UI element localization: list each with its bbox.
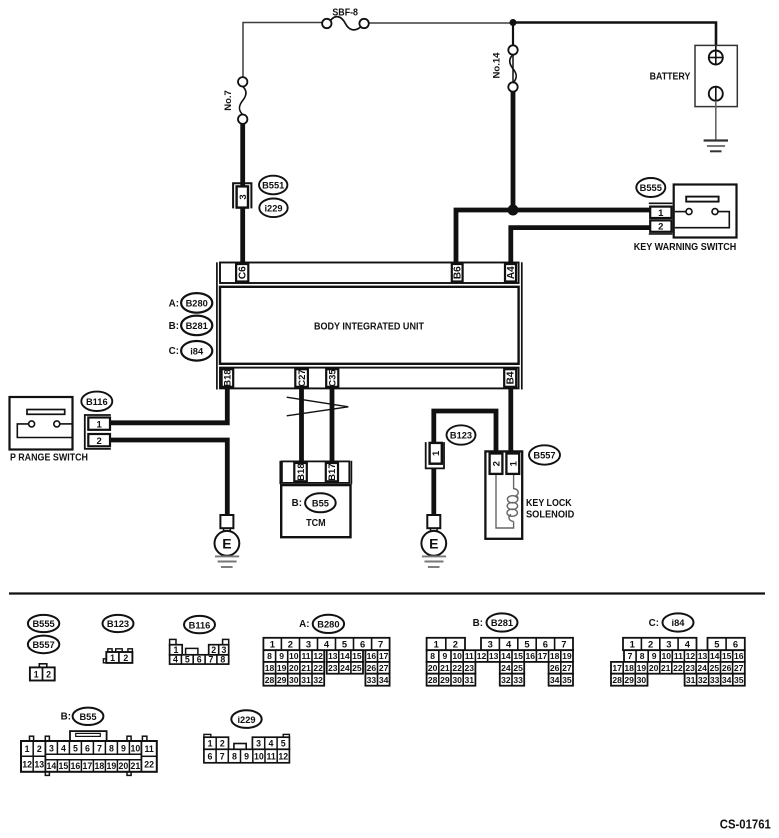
svg-text:26: 26 [550, 663, 560, 673]
TCM connector cell B17 [326, 463, 338, 481]
svg-text:16: 16 [526, 651, 536, 661]
svg-text:SBF-8: SBF-8 [332, 8, 358, 19]
connector label B557 (pin view) [28, 636, 59, 654]
svg-text:A:: A: [299, 619, 309, 630]
svg-text:10: 10 [452, 651, 462, 661]
svg-text:21: 21 [131, 761, 141, 771]
svg-text:8: 8 [232, 751, 237, 761]
key lock solenoid pin 2 [490, 454, 503, 474]
connector B555 pin 2 [650, 220, 671, 232]
TCM left bracket [279, 461, 281, 484]
svg-text:B17: B17 [327, 463, 338, 480]
svg-text:35: 35 [734, 675, 744, 685]
svg-text:8: 8 [109, 744, 114, 754]
svg-text:33: 33 [367, 675, 377, 685]
svg-text:No.7: No.7 [223, 90, 234, 111]
svg-text:20: 20 [119, 761, 129, 771]
svg-text:B280: B280 [186, 299, 208, 309]
wire: C27 to TCM B18 [299, 389, 304, 462]
svg-text:B557: B557 [32, 640, 54, 650]
fuse SBF-8 [322, 8, 369, 30]
svg-text:10: 10 [254, 751, 264, 761]
svg-text:E: E [429, 535, 438, 551]
svg-text:11: 11 [266, 751, 275, 761]
svg-text:17: 17 [538, 651, 548, 661]
svg-text:15: 15 [722, 651, 732, 661]
svg-text:B6: B6 [453, 266, 464, 279]
svg-text:1: 1 [508, 460, 519, 466]
svg-text:B557: B557 [533, 451, 555, 461]
svg-text:8: 8 [267, 651, 272, 661]
svg-text:9: 9 [443, 651, 448, 661]
svg-text:19: 19 [107, 761, 117, 771]
wire: No.14 fuse down to junction [511, 92, 516, 210]
separator line [9, 592, 765, 594]
TCM right bracket [350, 461, 352, 484]
svg-text:KEY WARNING SWITCH: KEY WARNING SWITCH [634, 242, 737, 253]
svg-text:4: 4 [173, 655, 178, 665]
svg-text:34: 34 [550, 675, 560, 685]
svg-text:B55: B55 [79, 712, 96, 722]
svg-text:24: 24 [501, 663, 511, 673]
svg-text:P RANGE SWITCH: P RANGE SWITCH [10, 452, 88, 463]
svg-text:19: 19 [277, 663, 287, 673]
svg-text:25: 25 [513, 663, 523, 673]
svg-text:C35: C35 [328, 369, 339, 387]
connector cell B6 [452, 264, 464, 282]
connector B123 pinout [103, 649, 132, 663]
unit label C: i84 [169, 341, 213, 361]
svg-text:B:: B: [169, 321, 179, 332]
svg-text:6: 6 [360, 638, 365, 649]
svg-text:7: 7 [97, 744, 102, 754]
svg-text:6: 6 [733, 638, 738, 649]
svg-text:18: 18 [550, 651, 560, 661]
svg-text:12: 12 [22, 760, 32, 770]
svg-text:35: 35 [562, 675, 572, 685]
svg-text:6: 6 [197, 655, 202, 665]
svg-text:15: 15 [59, 761, 69, 771]
svg-text:6: 6 [208, 751, 213, 761]
key lock solenoid pin 1 [506, 454, 519, 474]
body integrated unit top connector strip [220, 263, 519, 284]
connector label B116 (P range switch) [81, 392, 112, 411]
svg-text:4: 4 [268, 739, 273, 749]
connector pinout section [9, 594, 765, 776]
svg-text:i229: i229 [237, 715, 255, 725]
svg-text:27: 27 [379, 663, 389, 673]
connector label B551 [259, 176, 287, 195]
svg-text:4: 4 [61, 744, 66, 754]
svg-text:10: 10 [662, 651, 672, 661]
svg-text:3: 3 [256, 739, 261, 749]
svg-text:28: 28 [612, 675, 622, 685]
body integrated unit main box [220, 287, 519, 364]
svg-text:18: 18 [624, 663, 634, 673]
wire: B123 to ground [431, 468, 436, 515]
svg-text:2: 2 [46, 670, 51, 680]
svg-text:17: 17 [83, 761, 93, 771]
unit label B: B281 [169, 316, 213, 336]
svg-text:14: 14 [710, 651, 720, 661]
connector label B123 (inline) [447, 425, 476, 444]
svg-text:9: 9 [244, 751, 249, 761]
connector B116 housing [85, 415, 111, 449]
svg-text:28: 28 [265, 675, 275, 685]
svg-text:30: 30 [452, 675, 462, 685]
key lock solenoid body [485, 451, 522, 538]
connector B55 pinout [21, 731, 157, 775]
svg-text:B116: B116 [86, 397, 108, 407]
svg-text:34: 34 [722, 675, 732, 685]
connector label B116 (pin view) [184, 616, 215, 633]
svg-text:21: 21 [440, 663, 450, 673]
svg-text:16: 16 [367, 651, 377, 661]
svg-text:13: 13 [489, 651, 499, 661]
twisted pair marks [287, 397, 349, 416]
svg-text:19: 19 [562, 651, 572, 661]
svg-text:4: 4 [506, 638, 512, 649]
connector B280 pinout [263, 638, 389, 686]
svg-text:32: 32 [501, 675, 511, 685]
svg-text:33: 33 [513, 675, 523, 685]
svg-text:C:: C: [649, 618, 659, 629]
svg-text:12: 12 [477, 651, 487, 661]
svg-text:E: E [222, 535, 231, 551]
svg-text:1: 1 [208, 739, 213, 749]
connector B116 pin 1 [88, 418, 110, 431]
connector B555/B557 pinout [30, 664, 55, 681]
connector cell C35 [326, 369, 338, 387]
svg-text:3: 3 [49, 744, 54, 754]
svg-text:2: 2 [492, 461, 503, 466]
svg-text:5: 5 [73, 744, 78, 754]
svg-text:30: 30 [637, 675, 647, 685]
svg-text:7: 7 [628, 651, 633, 661]
svg-text:2: 2 [658, 222, 663, 233]
svg-text:1: 1 [270, 638, 275, 649]
svg-text:32: 32 [313, 675, 323, 685]
svg-text:7: 7 [378, 638, 383, 649]
connector i229 pinout [204, 734, 290, 762]
svg-text:B551: B551 [262, 181, 284, 191]
connector label B555 (key warning switch) [636, 178, 665, 197]
svg-text:2: 2 [123, 653, 128, 663]
svg-text:30: 30 [289, 675, 299, 685]
svg-text:29: 29 [440, 675, 450, 685]
svg-text:14: 14 [340, 651, 350, 661]
battery [650, 45, 738, 106]
connector B555 pins housing [649, 203, 673, 234]
ground: battery chassis ground [704, 141, 728, 152]
svg-text:8: 8 [640, 651, 645, 661]
svg-text:31: 31 [465, 675, 475, 685]
TCM box [281, 485, 350, 537]
TCM connector strip [282, 461, 349, 483]
svg-text:26: 26 [722, 663, 732, 673]
svg-text:12: 12 [278, 751, 288, 761]
svg-text:5: 5 [342, 638, 347, 649]
svg-text:1: 1 [173, 645, 178, 655]
svg-text:i229: i229 [264, 204, 282, 214]
svg-text:3: 3 [666, 638, 671, 649]
svg-text:2: 2 [211, 645, 216, 655]
svg-text:7: 7 [209, 655, 214, 665]
connector label A: B280 [299, 615, 344, 633]
svg-text:4: 4 [324, 638, 330, 649]
svg-text:B555: B555 [640, 183, 662, 193]
wire: main feed horizontal left of fuse SBF-8 [243, 23, 322, 78]
svg-text:CS-01761: CS-01761 [720, 817, 771, 831]
connector B281 pinout [427, 638, 573, 686]
svg-text:24: 24 [697, 663, 707, 673]
svg-text:29: 29 [277, 675, 287, 685]
svg-text:23: 23 [685, 663, 695, 673]
svg-text:1: 1 [110, 653, 115, 663]
connector B123 pin 1 [430, 443, 443, 464]
svg-text:B123: B123 [450, 431, 472, 441]
svg-text:17: 17 [379, 651, 389, 661]
svg-text:11: 11 [301, 651, 310, 661]
svg-text:C:: C: [169, 346, 179, 357]
svg-text:22: 22 [313, 663, 323, 673]
svg-text:19: 19 [637, 663, 647, 673]
connector 3 (B551/i229 inline) [233, 183, 251, 208]
node: junction dot key warning feed [508, 205, 519, 216]
connector label i229 [259, 199, 287, 218]
fuse No.7 [223, 77, 248, 124]
svg-text:BODY INTEGRATED UNIT: BODY INTEGRATED UNIT [314, 321, 424, 332]
svg-text:25: 25 [352, 663, 362, 673]
wire: feed between SBF-8 and junction [369, 22, 510, 24]
body integrated unit left bracket [216, 262, 218, 389]
svg-text:20: 20 [649, 663, 659, 673]
connector cell B4 [504, 369, 517, 387]
svg-text:18: 18 [95, 761, 105, 771]
svg-text:27: 27 [734, 663, 744, 673]
svg-text:1: 1 [630, 638, 635, 649]
svg-text:17: 17 [612, 663, 622, 673]
svg-text:23: 23 [465, 663, 475, 673]
svg-text:12: 12 [313, 651, 323, 661]
svg-text:11: 11 [465, 651, 474, 661]
connector cell A4 [505, 264, 517, 282]
svg-text:2: 2 [453, 638, 458, 649]
svg-text:7: 7 [561, 638, 566, 649]
svg-text:KEY LOCK: KEY LOCK [526, 498, 572, 509]
svg-text:13: 13 [328, 651, 338, 661]
svg-text:10: 10 [131, 744, 141, 754]
svg-text:3: 3 [238, 194, 249, 199]
svg-text:18: 18 [265, 663, 275, 673]
svg-text:14: 14 [47, 761, 57, 771]
svg-text:2: 2 [96, 436, 101, 447]
ground E left [215, 515, 240, 567]
svg-text:28: 28 [428, 675, 438, 685]
svg-text:13: 13 [698, 651, 708, 661]
svg-text:1: 1 [96, 419, 102, 430]
wire: C35 to TCM B17 [330, 389, 335, 462]
node: junction dot at feed split [510, 19, 517, 26]
connector B116 pin 2 [88, 434, 110, 447]
svg-text:7: 7 [220, 751, 225, 761]
svg-text:14: 14 [501, 651, 511, 661]
connector B116 pinout [170, 639, 229, 664]
svg-text:5: 5 [524, 638, 529, 649]
schematic section [10, 8, 738, 567]
svg-text:13: 13 [34, 760, 44, 770]
svg-text:C6: C6 [238, 266, 249, 279]
wire: P range switch pin 2 to ground [110, 440, 227, 515]
svg-text:A:: A: [169, 298, 179, 309]
svg-text:27: 27 [562, 663, 572, 673]
svg-text:10: 10 [289, 651, 299, 661]
svg-text:1: 1 [431, 450, 442, 456]
svg-text:34: 34 [379, 675, 389, 685]
connector i84 pinout [611, 638, 745, 686]
wire: No.7 fuse down to connector 3 and C6 [240, 124, 245, 263]
svg-text:B281: B281 [491, 618, 513, 628]
svg-text:2: 2 [288, 638, 293, 649]
svg-text:5: 5 [281, 739, 286, 749]
svg-text:21: 21 [301, 663, 311, 673]
svg-text:1: 1 [34, 670, 39, 680]
svg-text:9: 9 [652, 651, 657, 661]
svg-text:B55: B55 [312, 499, 329, 509]
connector cell C27 [295, 369, 308, 387]
svg-text:3: 3 [221, 645, 226, 655]
svg-text:No.14: No.14 [491, 52, 502, 79]
svg-text:B281: B281 [186, 321, 208, 331]
svg-text:33: 33 [710, 675, 720, 685]
connector label i229 (pin view) [231, 710, 261, 728]
svg-text:25: 25 [710, 663, 720, 673]
wire: horizontal to key warning switch pin 1 and to B6 [456, 210, 651, 263]
svg-text:1: 1 [658, 208, 664, 219]
svg-text:15: 15 [352, 651, 362, 661]
svg-text:B:: B: [292, 498, 302, 509]
body integrated unit bottom connector strip [220, 368, 519, 389]
svg-text:15: 15 [513, 651, 523, 661]
wire: B4 to key lock solenoid pin 1 [508, 389, 513, 454]
svg-text:32: 32 [698, 675, 708, 685]
wire: B18 to P range switch pin 1 [110, 389, 227, 423]
P RANGE SWITCH [10, 397, 89, 463]
wire: battery to chassis ground [715, 101, 717, 140]
svg-text:5: 5 [185, 655, 190, 665]
connector B123 inline housing [426, 442, 444, 468]
svg-text:B123: B123 [107, 619, 129, 629]
svg-text:8: 8 [220, 655, 225, 665]
svg-text:22: 22 [144, 760, 154, 770]
svg-text:31: 31 [301, 675, 311, 685]
svg-text:12: 12 [686, 651, 696, 661]
svg-text:29: 29 [624, 675, 634, 685]
connector label B: B281 [473, 613, 518, 631]
connector cell C6 [236, 264, 249, 282]
svg-text:B18: B18 [296, 463, 307, 480]
svg-text:16: 16 [71, 761, 81, 771]
connector label B557 (solenoid) [529, 445, 560, 464]
wire: junction to battery [512, 23, 717, 47]
svg-text:B4: B4 [506, 371, 517, 384]
svg-text:1: 1 [25, 744, 30, 754]
svg-text:11: 11 [144, 744, 153, 754]
TCM connector cell B18 [294, 463, 307, 481]
svg-text:11: 11 [674, 651, 683, 661]
svg-text:21: 21 [661, 663, 671, 673]
connector label B555 (pin view) [28, 615, 59, 632]
svg-text:9: 9 [121, 744, 126, 754]
svg-text:9: 9 [279, 651, 284, 661]
svg-text:20: 20 [289, 663, 299, 673]
label KEY LOCK SOLENOID [526, 498, 574, 521]
connector label B123 (pin view) [103, 615, 134, 632]
svg-text:2: 2 [37, 744, 42, 754]
svg-text:B:: B: [473, 618, 483, 629]
wire: key lock solenoid pin 2 to B123 [434, 411, 496, 454]
svg-text:31: 31 [686, 675, 696, 685]
svg-text:BATTERY: BATTERY [650, 72, 691, 83]
svg-text:A4: A4 [506, 266, 517, 279]
svg-text:i84: i84 [672, 618, 686, 628]
connector label C: i84 [649, 613, 694, 631]
svg-text:3: 3 [488, 638, 493, 649]
svg-text:2: 2 [648, 638, 653, 649]
svg-text:B280: B280 [317, 620, 339, 630]
fuse No.14 [491, 23, 517, 92]
unit label A: B280 [169, 293, 213, 313]
svg-text:20: 20 [428, 663, 438, 673]
svg-text:23: 23 [328, 663, 338, 673]
connector cell B18 [222, 369, 234, 387]
svg-text:5: 5 [714, 638, 719, 649]
svg-text:TCM: TCM [306, 518, 326, 529]
svg-text:2: 2 [220, 739, 225, 749]
svg-text:3: 3 [306, 638, 311, 649]
svg-text:6: 6 [85, 744, 90, 754]
svg-text:B18: B18 [223, 369, 234, 386]
svg-text:C27: C27 [297, 369, 308, 386]
body integrated unit right bracket [521, 262, 523, 389]
svg-text:B:: B: [61, 712, 71, 723]
svg-text:16: 16 [734, 651, 744, 661]
svg-text:B116: B116 [189, 620, 211, 630]
svg-text:26: 26 [367, 663, 377, 673]
svg-text:22: 22 [452, 663, 462, 673]
ground E right [421, 515, 446, 567]
svg-text:i84: i84 [190, 347, 204, 357]
svg-text:24: 24 [340, 663, 350, 673]
svg-text:B555: B555 [32, 619, 54, 629]
wire: A4 riser to key warning switch pin 2 [511, 228, 651, 263]
svg-text:4: 4 [685, 638, 691, 649]
svg-text:22: 22 [673, 663, 683, 673]
connector B555 pin 1 [650, 207, 671, 219]
svg-text:6: 6 [543, 638, 548, 649]
svg-text:8: 8 [430, 651, 435, 661]
connector label B: B55 [61, 708, 104, 725]
svg-text:SOLENOID: SOLENOID [526, 510, 574, 521]
svg-text:1: 1 [434, 638, 439, 649]
key warning switch [634, 185, 737, 253]
